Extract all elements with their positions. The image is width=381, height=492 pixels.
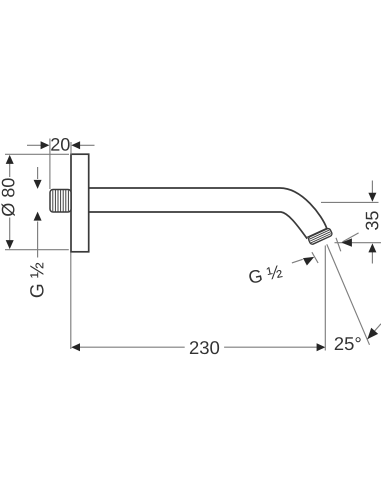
threaded outlet collar [306,227,332,245]
label G 1/2 at outlet with leader [292,233,359,263]
dimension G 1/2 (wall thread size, left) [37,167,39,258]
dimension 20 (thread projection) [27,139,95,190]
angle 25 degrees [325,244,381,350]
shower arm tube outline [89,188,327,239]
wall plate (escutcheon, side view) [71,154,89,252]
dimension 230 (arm length) [71,253,318,350]
dimension Ø 80 (plate diameter) [5,154,69,249]
wire: arm top edge + outer bend [89,188,327,228]
dimension 35 (outlet drop) [321,181,381,264]
wire: arm bottom edge + inner bend [89,212,307,239]
threaded wall nipple G1/2 [50,190,71,213]
